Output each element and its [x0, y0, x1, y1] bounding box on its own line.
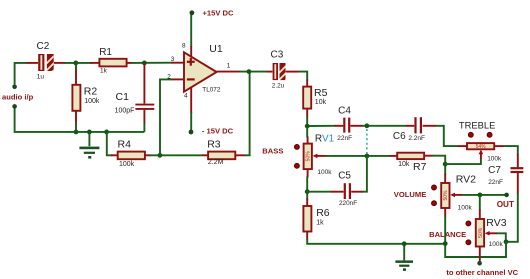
junction C2/R2/R1: [73, 61, 78, 66]
capacitor C1: [135, 105, 154, 109]
svg-text:C7: C7: [488, 165, 501, 176]
op-amp U1 pin1: [216, 71, 240, 73]
wire R5 to C4 node: [307, 117, 335, 127]
svg-text:100k: 100k: [487, 155, 502, 162]
svg-text:8: 8: [182, 43, 186, 50]
op-amp U1 pin4 stub: [190, 87, 192, 114]
wire input bottom: [15, 108, 145, 132]
capacitor C3 pins: [267, 71, 300, 73]
svg-text:50%: 50%: [478, 227, 484, 238]
pad VOLUME 2: [432, 201, 437, 206]
pad VOLUME 1: [432, 185, 437, 190]
resistor R4: [118, 152, 145, 160]
svg-text:2.2u: 2.2u: [272, 82, 285, 89]
svg-text:100k: 100k: [458, 205, 473, 212]
svg-text:- 15V DC: - 15V DC: [202, 127, 234, 136]
svg-text:C5: C5: [338, 170, 351, 181]
resistor R2: [72, 85, 80, 111]
junction RV2wiper/RV3: [478, 193, 483, 198]
capacitor C6 pins: [406, 125, 436, 127]
wire R6 to bottom rail: [307, 239, 445, 244]
potentiometer RV2: [441, 183, 449, 208]
node audio i/p terminal 2: [12, 104, 17, 109]
potentiometer RV3: [476, 219, 484, 247]
node audio i/p terminal 1: [12, 85, 17, 90]
potentiometer RV1 pin red top: [307, 137, 309, 144]
op-amp minus mark: [187, 78, 195, 80]
potentiometer RV2 top pin: [444, 174, 446, 184]
svg-text:1u: 1u: [37, 74, 45, 81]
svg-text:VOLUME: VOLUME: [394, 190, 427, 199]
resistor R1 pins: [90, 62, 132, 64]
svg-text:10k: 10k: [315, 99, 327, 106]
svg-text:C2: C2: [37, 41, 50, 52]
junction ground right: [402, 241, 407, 246]
potentiometer RV2 bottom pin: [444, 208, 446, 217]
wire RV3 wiper to node: [496, 233, 506, 242]
op-amp U1 pin3 stub: [172, 62, 185, 64]
resistor R5 pins: [306, 80, 308, 118]
wire C7 to bottom node: [506, 193, 518, 242]
node -15V terminal: [189, 130, 194, 135]
svg-text:22nF: 22nF: [337, 135, 352, 142]
pad BASS 2: [294, 163, 299, 168]
svg-text:220nF: 220nF: [339, 200, 357, 207]
potentiometer RV1 bottom pin: [307, 169, 309, 177]
svg-text:R3: R3: [207, 138, 221, 150]
capacitor C1 pin top: [143, 64, 145, 104]
capacitor C7 pin top: [517, 154, 519, 167]
svg-text:1k: 1k: [316, 220, 324, 227]
svg-text:to other channel VC: to other channel VC: [446, 268, 518, 277]
svg-text:100k: 100k: [489, 241, 504, 248]
svg-text:OUT: OUT: [497, 200, 514, 209]
wire C6 to treble pot: [435, 126, 458, 146]
pad TREBLE 1: [468, 132, 473, 137]
svg-text:50%: 50%: [443, 190, 449, 201]
wire treble wiper horizontal: [445, 158, 481, 165]
resistor R5: [303, 87, 311, 109]
capacitor C2: [38, 53, 57, 81]
svg-text:3: 3: [171, 56, 175, 63]
resistor R7 pins: [390, 155, 433, 157]
capacitor C3: [273, 63, 289, 91]
resistor R2 pins: [75, 68, 77, 124]
potentiometer RV1 top pin: [306, 127, 308, 138]
svg-text:R2: R2: [84, 86, 98, 98]
wire input top: [15, 63, 28, 85]
op-amp U1 pin8 stub: [190, 46, 192, 58]
junction wiper/C5: [365, 154, 370, 159]
capacitor C7: [511, 168, 524, 172]
ground stub left: [88, 132, 90, 146]
wire C5 riser: [361, 156, 367, 192]
ground symbol left: [79, 147, 99, 159]
junction rail/RV2 bottom: [443, 241, 448, 246]
svg-text:100pF: 100pF: [115, 108, 135, 115]
svg-text:10k: 10k: [398, 161, 410, 168]
potentiometer RV treble: [467, 143, 494, 149]
svg-text:TREBLE: TREBLE: [459, 119, 495, 130]
svg-text:54%: 54%: [476, 144, 487, 150]
capacitor C6: [416, 117, 421, 133]
svg-text:22nF: 22nF: [488, 179, 503, 186]
junction R5/C4/RV1: [305, 124, 310, 129]
potentiometer RV treble pins: [458, 145, 505, 147]
wire treble to C7: [504, 146, 518, 155]
op-amp plus mark: [187, 58, 195, 66]
wire C4 to C6: [362, 125, 407, 127]
svg-text:2.2M: 2.2M: [208, 159, 224, 166]
junction R4 drop: [104, 130, 109, 135]
junction ground left: [87, 130, 92, 135]
potentiometer RV3 top pin red: [479, 210, 481, 220]
capacitor C7 pin bottom: [517, 173, 519, 194]
svg-text:2.2nF: 2.2nF: [408, 135, 425, 142]
resistor R7: [397, 153, 424, 159]
capacitor C4: [344, 118, 349, 133]
svg-text:C3: C3: [271, 50, 284, 61]
RV3 wiper arrow: [485, 231, 490, 236]
pad BALANCE 1: [466, 221, 471, 226]
svg-text:R5: R5: [314, 87, 328, 99]
svg-text:R6: R6: [316, 207, 330, 219]
capacitor C4 pins: [335, 125, 363, 127]
svg-text:U1: U1: [209, 43, 223, 55]
pad BALANCE 2: [466, 240, 471, 245]
wire teal dashed: [366, 129, 368, 154]
junction R7/treble-wiper/RV2: [443, 162, 448, 167]
resistor R1: [99, 59, 126, 67]
svg-text:C4: C4: [338, 106, 351, 117]
wire R2 to rail: [75, 63, 77, 131]
wire pin4 to -15V: [190, 112, 192, 131]
svg-text:1k: 1k: [100, 67, 108, 74]
potentiometer RV1: [304, 144, 312, 170]
wire RV1 to C5 node: [306, 177, 308, 193]
junction R1/C1/pin3: [142, 61, 147, 66]
junction output node: [247, 69, 252, 74]
svg-text:100k: 100k: [84, 98, 100, 105]
wire C2 to R1: [64, 62, 91, 64]
op-amp U1: [184, 52, 217, 91]
potentiometer RV3 bottom pin: [479, 247, 481, 262]
wire R1 to pin3: [132, 62, 173, 64]
svg-text:C6: C6: [393, 131, 406, 142]
op-amp U1 pin2 stub: [172, 78, 185, 80]
junction C4/C6/teal: [365, 123, 370, 128]
svg-text:R1: R1: [99, 47, 112, 58]
svg-text:TL072: TL072: [202, 86, 221, 93]
junction RV3wiper/C7/out-bus: [504, 239, 509, 244]
svg-text:RV2: RV2: [456, 174, 476, 186]
RV1 wiper arrow: [313, 154, 318, 159]
svg-text:audio i/p: audio i/p: [2, 93, 34, 102]
svg-text:BALANCE: BALANCE: [429, 230, 466, 239]
wire C1 to ground rail: [143, 123, 145, 132]
svg-text:1: 1: [227, 63, 231, 70]
wire R6 top: [306, 192, 308, 200]
svg-text:BASS: BASS: [262, 147, 283, 156]
RV3 wiper wire red: [489, 232, 497, 234]
svg-text:R7: R7: [413, 161, 427, 173]
capacitor C5 pins: [332, 191, 363, 193]
wire R3 to output node: [244, 72, 249, 156]
node +15V terminal: [190, 10, 195, 15]
svg-text:RV3: RV3: [486, 217, 506, 229]
svg-text:+15V DC: +15V DC: [203, 8, 235, 17]
wire rail to R4: [107, 132, 112, 155]
resistor R3 pins: [202, 154, 245, 156]
wire RV2 bottom to bus: [445, 216, 506, 258]
resistor R6 pins: [306, 199, 308, 240]
wire RV1 wiper to R7: [325, 155, 390, 157]
RV1 wiper wire red: [317, 155, 327, 157]
resistor R3: [208, 152, 235, 160]
svg-text:50%: 50%: [306, 151, 312, 162]
wire C3 to R5: [299, 72, 307, 81]
RV2 wiper arrow: [450, 193, 455, 198]
node to-other-channel terminal: [477, 261, 482, 266]
wire node to C5: [307, 191, 332, 193]
op-amp U1 power wire top: [190, 15, 192, 48]
node OUT terminal: [504, 193, 509, 198]
svg-text:RV1: RV1: [315, 133, 335, 144]
wire R7 to RV2: [432, 156, 445, 175]
wire out to C3: [240, 71, 268, 73]
treble wiper red: [480, 153, 482, 159]
capacitor C1 pin bottom: [143, 110, 145, 124]
resistor R4 pins: [111, 154, 150, 156]
svg-text:4: 4: [184, 93, 188, 100]
pad TREBLE 2: [487, 132, 492, 137]
junction R4/R3/pin2: [158, 153, 163, 158]
wire feedback vertical to pin2: [160, 79, 173, 155]
junction R2 on rail: [74, 130, 79, 135]
pad BASS 1: [294, 144, 299, 149]
resistor R6: [303, 206, 311, 232]
svg-text:R4: R4: [118, 138, 132, 150]
capacitor C2 pins: [27, 62, 65, 64]
ground symbol right: [395, 260, 413, 271]
wire RV3 top: [479, 195, 481, 211]
svg-text:100k: 100k: [317, 169, 332, 176]
wire RV2 wiper to OUT: [462, 194, 506, 196]
RV2 wiper wire red: [454, 194, 463, 196]
ground stub right: [403, 244, 405, 261]
treble wiper arrow: [479, 150, 484, 155]
svg-text:2: 2: [167, 74, 171, 81]
capacitor C5: [345, 183, 350, 199]
svg-text:100k: 100k: [119, 161, 135, 168]
svg-text:C1: C1: [116, 91, 130, 103]
wire R4 to R3: [149, 154, 202, 156]
junction RV1/C5/R6: [305, 189, 310, 194]
